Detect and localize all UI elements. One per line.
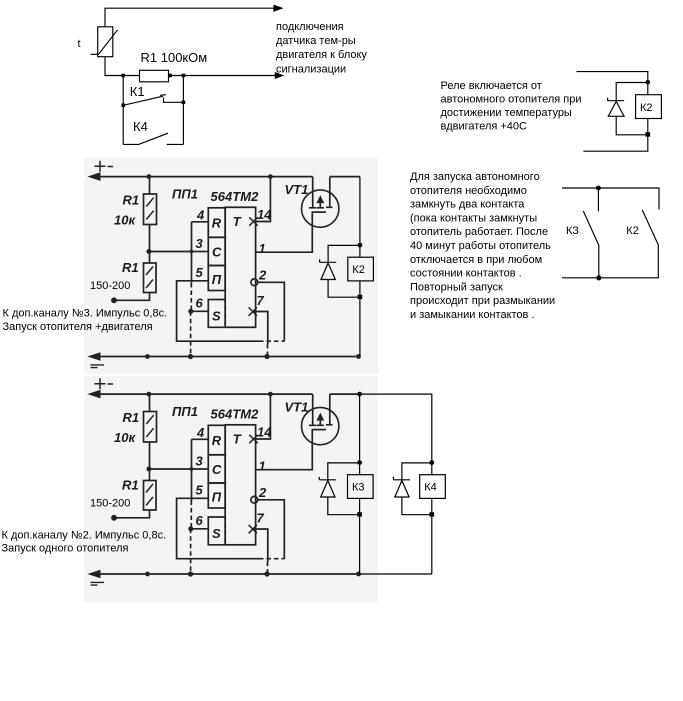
svg-text:VT1: VT1 <box>285 182 309 197</box>
svg-text:К2: К2 <box>626 225 639 237</box>
svg-text:датчика тем-ры: датчика тем-ры <box>276 35 356 47</box>
wire tie to minus rail (dashed) <box>190 311 192 356</box>
relay K2 box <box>348 257 374 281</box>
wire pin1 to gate <box>256 212 313 252</box>
contact K2 <box>642 210 658 278</box>
wire bottom rail extension <box>360 573 432 575</box>
wire pin6 <box>191 310 209 312</box>
svg-text:14: 14 <box>257 207 272 222</box>
svg-text:и замыкании контактов .: и замыкании контактов . <box>410 309 535 321</box>
svg-text:происходит при размыкании: происходит при размыкании <box>410 295 555 307</box>
node top <box>596 186 601 191</box>
IC input box S <box>208 300 225 328</box>
IC input box C <box>208 237 225 265</box>
wire top rail right segment <box>330 176 360 178</box>
node K4 diode bottom <box>430 512 435 516</box>
svg-text:отключается в при любом: отключается в при любом <box>410 254 542 266</box>
svg-text:7: 7 <box>257 293 265 308</box>
node rail-R1 <box>147 174 152 179</box>
svg-text:R1 100кОм: R1 100кОм <box>141 50 208 65</box>
thermistor t <box>98 27 113 57</box>
arrow to alarm unit (node) <box>275 73 279 77</box>
relay K4 box <box>420 475 446 499</box>
resistor R1 150-200 <box>149 252 151 264</box>
wire top rail (K2 snubber circuit) <box>577 72 648 95</box>
node junction at R1 right <box>168 74 172 78</box>
node diode top <box>358 243 363 248</box>
wire pin3 from divider <box>149 251 208 253</box>
svg-text:К4: К4 <box>424 482 437 494</box>
svg-text:подключения: подключения <box>276 21 344 33</box>
node rail pin7 <box>264 354 269 359</box>
node pin4/pin3 <box>190 250 194 254</box>
svg-text:t: t <box>78 38 81 50</box>
wire K2 to bottom node <box>583 119 647 152</box>
svg-text:Запуск одного отопителя: Запуск одного отопителя <box>2 542 129 554</box>
diode VD4 <box>393 477 410 480</box>
node divider junction <box>146 249 151 254</box>
IC input box R <box>208 208 225 238</box>
svg-text:R1: R1 <box>123 193 140 208</box>
wire K4 branch <box>431 499 433 574</box>
minus rail terminal arrow <box>89 353 100 360</box>
relay branch K3 (copy of K2 branch shape) <box>319 394 373 574</box>
wire top rail left segment <box>91 176 313 178</box>
svg-text:40 минут работы отопитель: 40 минут работы отопитель <box>410 240 551 252</box>
svg-text:К1: К1 <box>130 84 145 99</box>
wire pin14 <box>256 177 271 222</box>
wire pin5 feedback <box>177 281 259 341</box>
svg-text:Повторный запуск: Повторный запуск <box>410 281 503 293</box>
VT1 substrate bar and arrow <box>317 201 324 208</box>
node rail-pin14 <box>268 174 273 179</box>
arrow to alarm unit (top) <box>274 5 282 11</box>
wire diode loop K2 <box>328 245 360 262</box>
power terminal arrow (+ rail) <box>89 173 100 180</box>
wire pin4 down to S tie <box>191 222 193 283</box>
svg-text:5: 5 <box>196 265 204 280</box>
diode VD2 <box>320 259 337 262</box>
IC input box D <box>208 266 225 291</box>
svg-text:R: R <box>212 216 222 231</box>
node bottom <box>596 275 601 280</box>
VT1 gate bar <box>312 211 326 213</box>
wire bottom rail <box>562 277 659 279</box>
svg-text:R1: R1 <box>122 260 139 275</box>
svg-text:К4: К4 <box>133 119 148 134</box>
node rail relay branch <box>356 354 361 359</box>
svg-text:сигнализации: сигнализации <box>276 63 346 75</box>
wire top to sensor arrow <box>105 8 277 27</box>
svg-text:1: 1 <box>259 241 266 256</box>
transistor VT1 <box>302 190 339 227</box>
diode VD (zener) <box>608 98 625 101</box>
X mark pin14 <box>249 217 257 225</box>
svg-text:К2: К2 <box>352 264 365 276</box>
svg-text:отопителя необходимо: отопителя необходимо <box>410 185 527 197</box>
svg-text:150-200: 150-200 <box>90 280 130 292</box>
svg-text:10к: 10к <box>114 213 136 228</box>
contact K4 <box>123 133 168 144</box>
svg-text:К2: К2 <box>640 102 653 114</box>
svg-text:ПП1: ПП1 <box>172 187 198 202</box>
node A junction <box>121 74 125 78</box>
svg-text:C: C <box>212 245 222 260</box>
VT1 source lead <box>326 177 333 208</box>
svg-text:(пока контакты замкнуты: (пока контакты замкнуты <box>410 212 537 224</box>
resistor R1 10k <box>149 177 151 194</box>
svg-text:автономного отопителя при: автономного отопителя при <box>441 94 582 106</box>
wire top rail (contacts circuit) <box>562 188 659 210</box>
node pin6 tie <box>188 309 193 314</box>
contact K3 <box>597 188 599 211</box>
svg-text:6: 6 <box>196 296 204 311</box>
svg-text:Реле включается от: Реле включается от <box>441 80 542 92</box>
svg-text:S: S <box>212 309 221 324</box>
node rail K3 branch <box>357 392 362 397</box>
svg-text:КЗ: КЗ <box>566 225 579 237</box>
svg-text:достижении температуры: достижении температуры <box>441 107 572 119</box>
pin2 inversion bubble <box>251 279 258 286</box>
svg-text:двигателя к блоку: двигателя к блоку <box>276 49 367 61</box>
svg-text:3: 3 <box>196 236 204 251</box>
wire minus rail <box>91 356 360 358</box>
node rail tie <box>188 354 193 359</box>
node K1 left <box>121 104 125 108</box>
minus mark under rail <box>91 365 105 368</box>
svg-text:состоянии контактов .: состоянии контактов . <box>410 268 522 280</box>
svg-text:2: 2 <box>258 268 267 283</box>
plus-minus terminal label <box>95 161 114 172</box>
node diode bottom <box>358 295 363 299</box>
svg-text:К3: К3 <box>352 482 365 494</box>
wire right ladder <box>182 76 184 145</box>
node top <box>646 80 651 85</box>
wire thermistor to node <box>105 57 140 76</box>
wire pin7 to minus rail <box>254 312 268 345</box>
wire diode loop <box>616 83 648 99</box>
VT1 drain lead <box>309 177 317 208</box>
scan background section A <box>84 158 378 374</box>
svg-text:4: 4 <box>196 208 205 223</box>
wire pin2 to feedback <box>258 282 285 341</box>
resistor R1 100kOm <box>140 70 169 82</box>
svg-text:отопитель работает. После: отопитель работает. После <box>410 226 548 238</box>
node rail x147 <box>145 354 150 359</box>
node K4 diode top <box>429 460 434 465</box>
svg-text:замкнуть два контакта: замкнуть два контакта <box>410 199 525 211</box>
svg-text:К доп.каналу №3. Импульс 0,8с.: К доп.каналу №3. Импульс 0,8с. <box>3 307 168 319</box>
wire R1b to output terminal <box>115 293 150 301</box>
svg-text:вдвигателя +40С: вдвигателя +40С <box>441 121 528 133</box>
svg-text:К доп.каналу №2. Импульс 0,8с.: К доп.каналу №2. Импульс 0,8с. <box>2 530 167 542</box>
wire top rail extension to K4 <box>360 394 432 475</box>
node bottom <box>646 132 651 136</box>
svg-text:T: T <box>233 214 242 229</box>
wire K2 to minus rail <box>359 281 361 357</box>
wire relay branch from rail <box>359 177 361 258</box>
wire node to right arrow <box>169 75 278 77</box>
contact K1 <box>123 96 163 105</box>
node junction right ladder <box>182 74 186 78</box>
node K1 right <box>182 101 186 105</box>
svg-text:564ТМ2: 564ТМ2 <box>211 189 260 204</box>
X mark pin7 <box>249 307 257 315</box>
wire pin4 <box>192 221 209 223</box>
svg-text:П: П <box>212 272 222 287</box>
wire diode loop K4 <box>402 463 432 480</box>
relay K2 box <box>636 95 662 119</box>
svg-text:Для запуска автономного: Для запуска автономного <box>410 171 540 183</box>
scan background section B <box>84 376 378 602</box>
IC U1 main box <box>225 207 255 327</box>
svg-text:Запуск отопителя +двигателя: Запуск отопителя +двигателя <box>3 321 153 333</box>
wire left ladder <box>122 76 124 145</box>
terminal dot output A <box>111 297 117 303</box>
